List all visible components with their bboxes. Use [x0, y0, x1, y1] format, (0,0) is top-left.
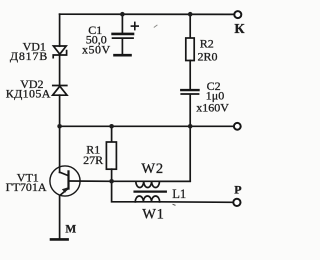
- node dot base junction: [109, 179, 114, 184]
- wire collector: [59, 126, 61, 172]
- wire C2 to middle bus: [189, 95, 191, 127]
- wire middle bus: [60, 125, 234, 127]
- svg-text:27R: 27R: [83, 153, 103, 167]
- wire VD2 to middle bus: [59, 95, 61, 126]
- wire R2 top: [189, 14, 191, 38]
- wire R1 top: [111, 126, 113, 142]
- wire W1 to terminal P: [160, 201, 233, 204]
- capacitor C1: [113, 14, 139, 55]
- wire VD1 to VD2: [59, 56, 61, 86]
- stray scan mark under L1: [173, 204, 176, 205]
- winding W1: [135, 196, 159, 202]
- terminal middle: [234, 123, 241, 130]
- svg-text:x160V: x160V: [196, 101, 229, 115]
- svg-text:ГТ701А: ГТ701А: [6, 180, 47, 194]
- transistor VT1: [50, 166, 80, 196]
- terminal P: [233, 199, 240, 206]
- diode VD2: [53, 86, 67, 96]
- ground terminal M: [51, 238, 68, 241]
- svg-text:M: M: [65, 223, 76, 235]
- resistor R2: [186, 38, 194, 61]
- wire top bus: [60, 13, 234, 15]
- node dot R2/top bus: [188, 12, 193, 17]
- wire emitter: [59, 195, 61, 238]
- wire R2 to C2: [189, 61, 191, 89]
- svg-text:К: К: [234, 22, 245, 37]
- svg-text:W1: W1: [142, 207, 165, 223]
- winding W2: [112, 181, 191, 187]
- svg-text:W2: W2: [141, 161, 164, 177]
- node dot R1/middle bus: [109, 124, 114, 129]
- svg-text:2R0: 2R0: [198, 49, 218, 63]
- terminal K: [234, 11, 241, 18]
- svg-text:L1: L1: [172, 187, 186, 201]
- node dot C1/top bus: [120, 12, 125, 17]
- wire R1 bottom: [111, 169, 113, 181]
- wire base: [69, 180, 112, 182]
- svg-text:КД105А: КД105А: [6, 86, 51, 100]
- zener diode VD1: [53, 46, 66, 58]
- resistor R1: [106, 142, 116, 169]
- wire middle bus to W2: [160, 126, 191, 181]
- wire VD chain top: [59, 14, 61, 46]
- svg-text:Д817В: Д817В: [10, 49, 48, 63]
- node dot C2/middle bus: [188, 124, 193, 129]
- wire W1 left connector: [112, 181, 136, 202]
- stray scan mark near C1 plus: [154, 25, 158, 28]
- core L1: [135, 190, 166, 192]
- svg-text:P: P: [234, 182, 241, 196]
- node dot VD2/middle bus: [57, 124, 62, 129]
- capacitor C2: [181, 90, 198, 94]
- svg-text:x50V: x50V: [82, 42, 111, 56]
